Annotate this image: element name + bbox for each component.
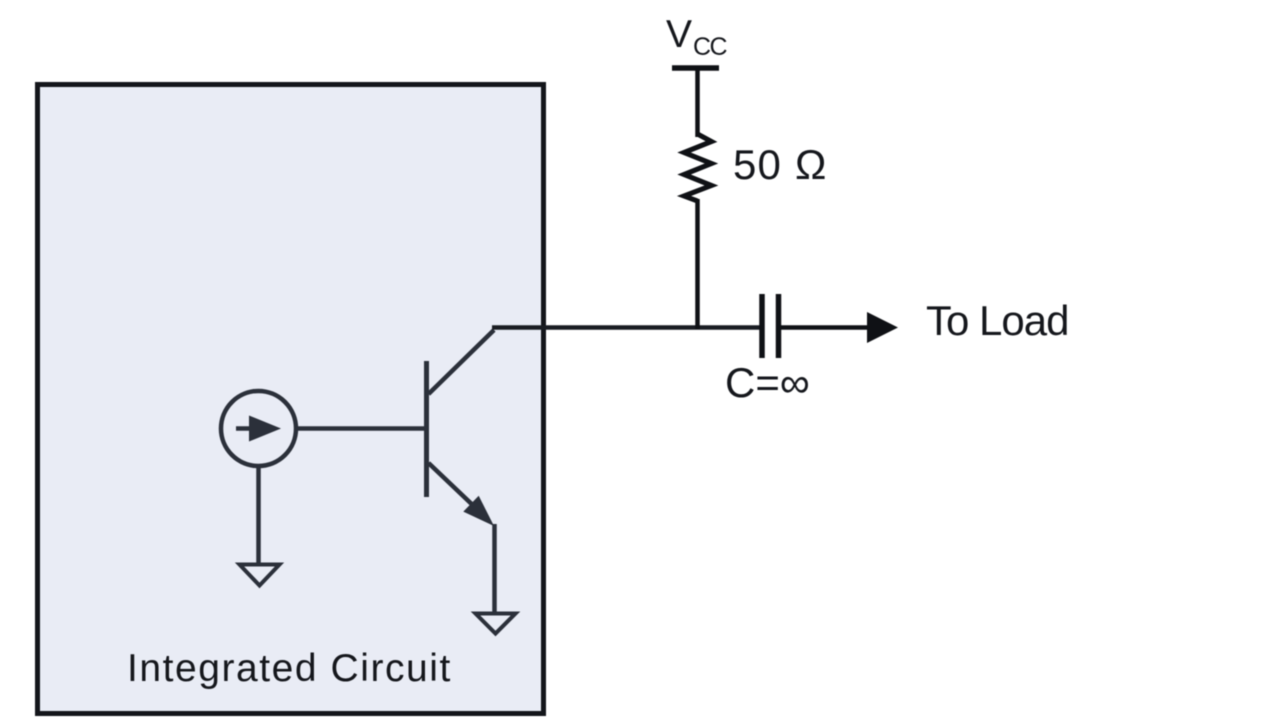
svg-text:V: V xyxy=(666,13,692,56)
svg-text:To Load: To Load xyxy=(926,297,1068,344)
arrow to load xyxy=(867,312,898,343)
power bar Vcc xyxy=(672,65,719,71)
svg-text:Integrated Circuit: Integrated Circuit xyxy=(127,647,452,690)
wire current source to ground xyxy=(256,465,261,566)
svg-text:C=∞: C=∞ xyxy=(725,359,810,406)
wire resistor to node xyxy=(695,199,700,329)
svg-text:50 Ω: 50 Ω xyxy=(733,141,828,188)
wire capacitor to load xyxy=(781,325,872,330)
wire collector horizontal xyxy=(492,325,760,330)
ground G2 xyxy=(476,614,516,634)
ground G1 xyxy=(240,565,280,586)
resistor R1 xyxy=(684,134,712,201)
wire emitter to ground xyxy=(492,524,497,614)
capacitor C1 xyxy=(762,294,779,358)
transistor Q1 xyxy=(427,330,495,526)
label Vcc xyxy=(666,13,728,61)
current source I1 xyxy=(221,391,296,466)
IC box xyxy=(38,85,544,714)
wire Vcc to resistor xyxy=(695,68,700,137)
svg-text:CC: CC xyxy=(693,33,728,61)
wire base xyxy=(295,426,429,431)
